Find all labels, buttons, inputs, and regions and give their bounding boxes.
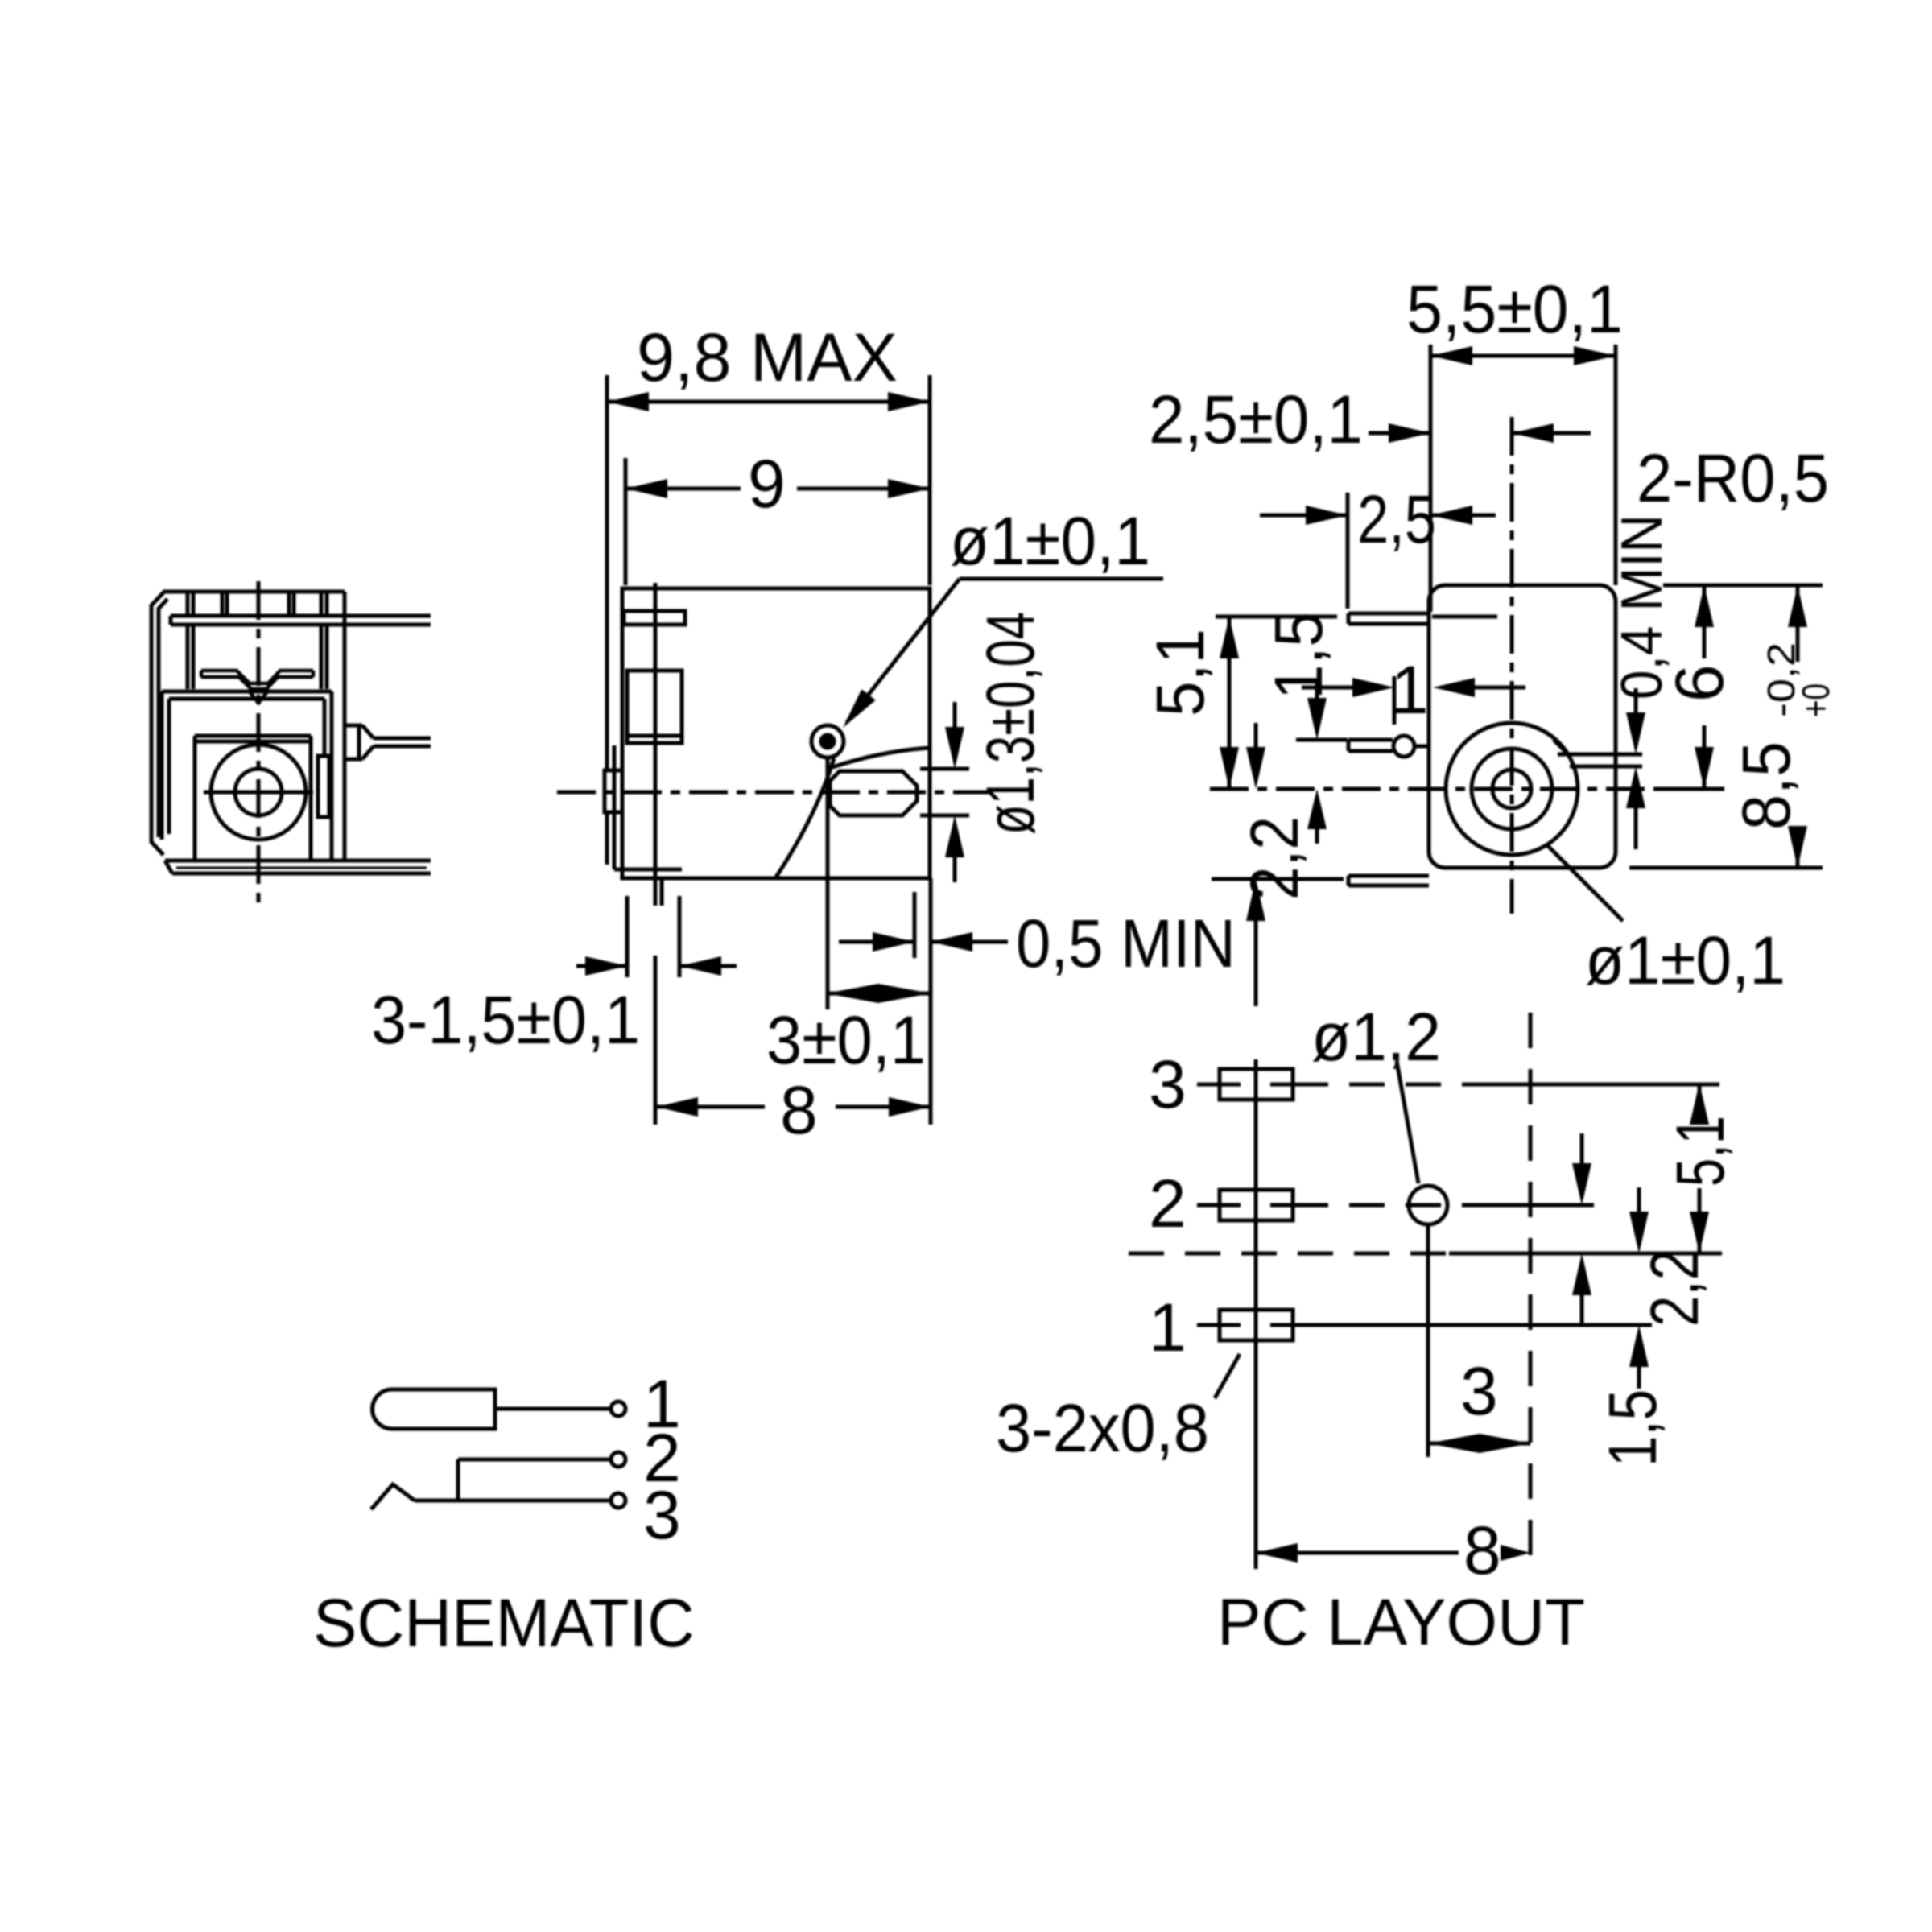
svg-text:3: 3 (1149, 1046, 1187, 1122)
svg-text:2,5±0,1: 2,5±0,1 (1149, 382, 1363, 457)
svg-text:SCHEMATIC: SCHEMATIC (313, 1585, 695, 1661)
svg-text:9: 9 (748, 446, 786, 522)
svg-text:PC LAYOUT: PC LAYOUT (1217, 1586, 1585, 1659)
svg-text:8: 8 (780, 1072, 818, 1148)
svg-text:2,5: 2,5 (1357, 481, 1436, 557)
svg-text:2,2: 2,2 (1637, 1249, 1712, 1327)
svg-text:ø1±0,1: ø1±0,1 (950, 503, 1150, 579)
svg-text:1,5: 1,5 (1261, 612, 1336, 700)
svg-text:1: 1 (1149, 1290, 1187, 1365)
svg-text:3: 3 (1460, 1353, 1498, 1429)
svg-text:3: 3 (643, 1477, 681, 1553)
svg-text:3-1,5±0,1: 3-1,5±0,1 (371, 982, 640, 1058)
svg-text:1,5: 1,5 (1595, 1389, 1670, 1467)
svg-text:8,5: 8,5 (1728, 741, 1804, 830)
svg-text:1: 1 (1391, 652, 1429, 728)
svg-text:5,5±0,1: 5,5±0,1 (1406, 271, 1623, 347)
svg-text:5,1: 5,1 (1142, 629, 1218, 716)
svg-text:ø1±0,1: ø1±0,1 (1585, 923, 1785, 998)
svg-text:ø1,2: ø1,2 (1311, 999, 1441, 1075)
svg-text:ø1,3±0,04: ø1,3±0,04 (972, 612, 1048, 835)
svg-text:9,8 MAX: 9,8 MAX (637, 320, 898, 395)
svg-text:8: 8 (1463, 1513, 1501, 1588)
svg-text:-0,2: -0,2 (1761, 642, 1803, 717)
svg-text:3-2x0,8: 3-2x0,8 (996, 1390, 1209, 1466)
svg-text:0,5 MIN: 0,5 MIN (1016, 906, 1236, 981)
svg-text:2-R0,5: 2-R0,5 (1637, 440, 1829, 516)
svg-text:6: 6 (1662, 664, 1737, 702)
svg-text:5,1: 5,1 (1662, 1116, 1738, 1187)
svg-text:3±0,1: 3±0,1 (766, 1002, 926, 1078)
svg-text:2: 2 (1149, 1166, 1187, 1241)
svg-text:2,2: 2,2 (1236, 816, 1312, 900)
